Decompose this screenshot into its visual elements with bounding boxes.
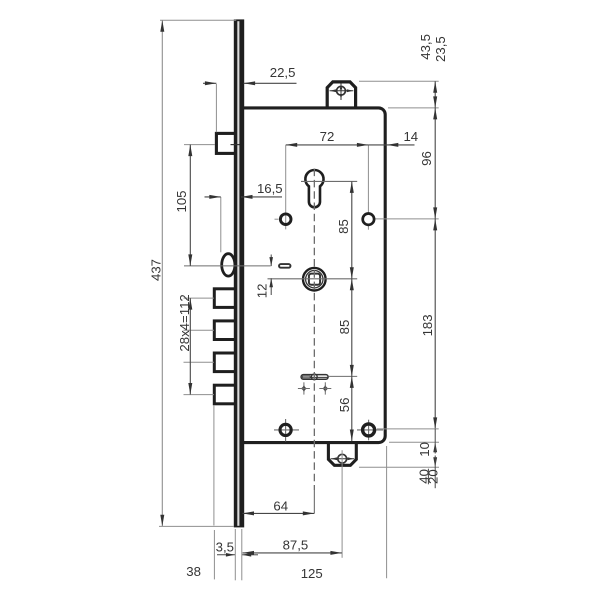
svg-text:87,5: 87,5 [283, 538, 309, 553]
bolt box 3 axis line [184, 361, 215, 363]
dim 183 arrows [433, 219, 437, 231]
dim 14 line [368, 144, 414, 146]
dim 105 arrows [188, 145, 192, 157]
lower-left hole crosshair [274, 429, 299, 431]
dim 437 arrows [160, 20, 164, 32]
dim 85b line [351, 279, 353, 377]
dim 85a line [351, 181, 353, 278]
svg-text:64: 64 [273, 498, 288, 513]
dim 14 arrow [387, 143, 399, 147]
dim 437 extension top [160, 19, 236, 21]
deadbolt [222, 254, 235, 276]
top tab hole v-line [340, 84, 342, 101]
bottom mounting tab [328, 442, 356, 466]
lever bar [301, 375, 328, 380]
bottom tab hole v-line / 87.5 extension [341, 450, 343, 558]
svg-text:85: 85 [336, 219, 351, 234]
upper-right hole crosshair [367, 145, 369, 213]
svg-text:96: 96 [419, 151, 434, 166]
latch bevel line [231, 144, 240, 146]
dim 64 arrows [243, 511, 255, 515]
lock body [242, 108, 385, 443]
svg-text:56: 56 [337, 398, 352, 413]
upper-right mounting hole [363, 214, 374, 225]
lever bar slit [303, 376, 311, 378]
centerline solid extension [313, 490, 315, 513]
dim 96 line [434, 108, 436, 219]
body top extension [388, 107, 439, 109]
svg-text:125: 125 [301, 566, 323, 581]
vertical centerline (dashed) [313, 169, 315, 490]
dim 22.5 extension [215, 84, 217, 132]
dim 16.5 line [205, 196, 221, 198]
bolt box 3 [214, 353, 236, 372]
dim 96 arrows [433, 108, 437, 120]
top mounting tab [327, 82, 355, 109]
deadbolt axis line [184, 265, 271, 267]
spindle hub outer [303, 268, 326, 291]
dim 22.5 line [203, 82, 216, 84]
svg-text:16,5: 16,5 [257, 181, 283, 196]
dim 28x4 arrows [188, 298, 192, 310]
dim 16.5 extension [220, 197, 222, 252]
bolt box 2 [214, 321, 236, 340]
dim 105 line [189, 145, 191, 266]
lever mid line [311, 376, 329, 378]
svg-text:23,5: 23,5 [433, 36, 448, 62]
svg-text:22,5: 22,5 [270, 65, 296, 80]
svg-text:10: 10 [417, 442, 432, 457]
tab bottom extension [359, 466, 439, 468]
rivet mark left [301, 385, 307, 393]
bolt box 2 axis line [184, 329, 215, 331]
tab top extension [359, 80, 439, 82]
bottom tab hole h-line [331, 458, 355, 460]
dim 22.5 arrows [205, 81, 217, 85]
dim 85b arrows [350, 279, 354, 291]
lower-right hole axis extension [377, 428, 439, 430]
dim 3.5 extensions [234, 529, 236, 580]
bolt box 1 [214, 289, 236, 308]
lower-right mounting hole [363, 424, 375, 436]
dim 87.5 arrows [243, 551, 255, 555]
bolt box 4 [214, 385, 236, 404]
bottom tab screw hole [338, 454, 347, 463]
dim 72 arrows [286, 143, 298, 147]
dim 183 line [434, 219, 436, 429]
dim 12 line [270, 255, 272, 267]
dim 56 arrows [350, 376, 354, 388]
bolt envelope line [213, 406, 215, 526]
lever axis line [329, 375, 358, 377]
dim 437 extension bottom [159, 525, 234, 527]
dim 10 arrow [433, 442, 437, 452]
svg-text:3,5: 3,5 [216, 540, 234, 555]
dim 10 line [434, 429, 436, 442]
dim 20 arrow body [434, 456, 436, 489]
svg-text:38: 38 [186, 564, 201, 579]
dim 20 arrow [433, 457, 437, 467]
dim 28x4 line [189, 298, 191, 394]
spindle hub inner ring [306, 271, 323, 288]
slot [279, 264, 291, 268]
dim 23.5 arrows [433, 81, 437, 93]
dim 23.5 line [434, 81, 436, 108]
dim 10 arrow body [434, 442, 436, 453]
cylinder axis line [301, 180, 357, 182]
dim 16.5 arrows [209, 195, 221, 199]
spindle axis line [268, 278, 358, 280]
svg-text:20: 20 [426, 469, 441, 484]
svg-text:183: 183 [420, 314, 435, 336]
latch axis line [184, 144, 215, 146]
bolt box 1 axis line [184, 297, 215, 299]
lower-right hole crosshair [357, 429, 383, 431]
top tab hole v-arrows [340, 84, 343, 90]
dim 38 separator line [213, 530, 215, 579]
svg-text:72: 72 [320, 129, 335, 144]
euro cylinder hole [305, 170, 323, 207]
dim 125 separator line [386, 446, 388, 578]
bottom tab hole h-arrows [331, 457, 338, 460]
top tab screw hole [337, 86, 346, 95]
dim 3.5 line [217, 554, 235, 556]
svg-text:14: 14 [403, 129, 418, 144]
svg-text:43,5: 43,5 [418, 34, 433, 60]
dim 56 line [351, 376, 353, 441]
spindle square [309, 274, 320, 285]
lever pivot circle [311, 374, 317, 380]
svg-text:12: 12 [255, 284, 270, 299]
rivet mark right [322, 385, 328, 393]
faceplate [234, 19, 244, 527]
dim 12 arrows [269, 257, 273, 266]
lower-left mounting hole [280, 424, 291, 435]
latch box [216, 133, 236, 153]
dim 64 line [243, 512, 315, 514]
body bottom extension [389, 441, 439, 443]
svg-text:28x4=112: 28x4=112 [177, 294, 192, 351]
svg-text:437: 437 [148, 259, 163, 281]
svg-text:105: 105 [174, 190, 189, 212]
top tab hole h-line [330, 90, 354, 92]
dim 3.5 arrows [226, 553, 235, 557]
faceplate slit [237, 21, 239, 526]
svg-text:85: 85 [337, 320, 352, 335]
upper-left mounting hole [280, 214, 291, 225]
fraction bar [427, 469, 429, 485]
top tab hole h-arrows [330, 89, 337, 92]
dim 87.5 line [243, 552, 342, 554]
bolt box 4 axis line [184, 394, 215, 396]
dim 437 line [161, 20, 163, 526]
dim 85a arrows [350, 181, 354, 193]
upper-left hole crosshair [285, 145, 287, 229]
dim 72 line [286, 144, 369, 146]
